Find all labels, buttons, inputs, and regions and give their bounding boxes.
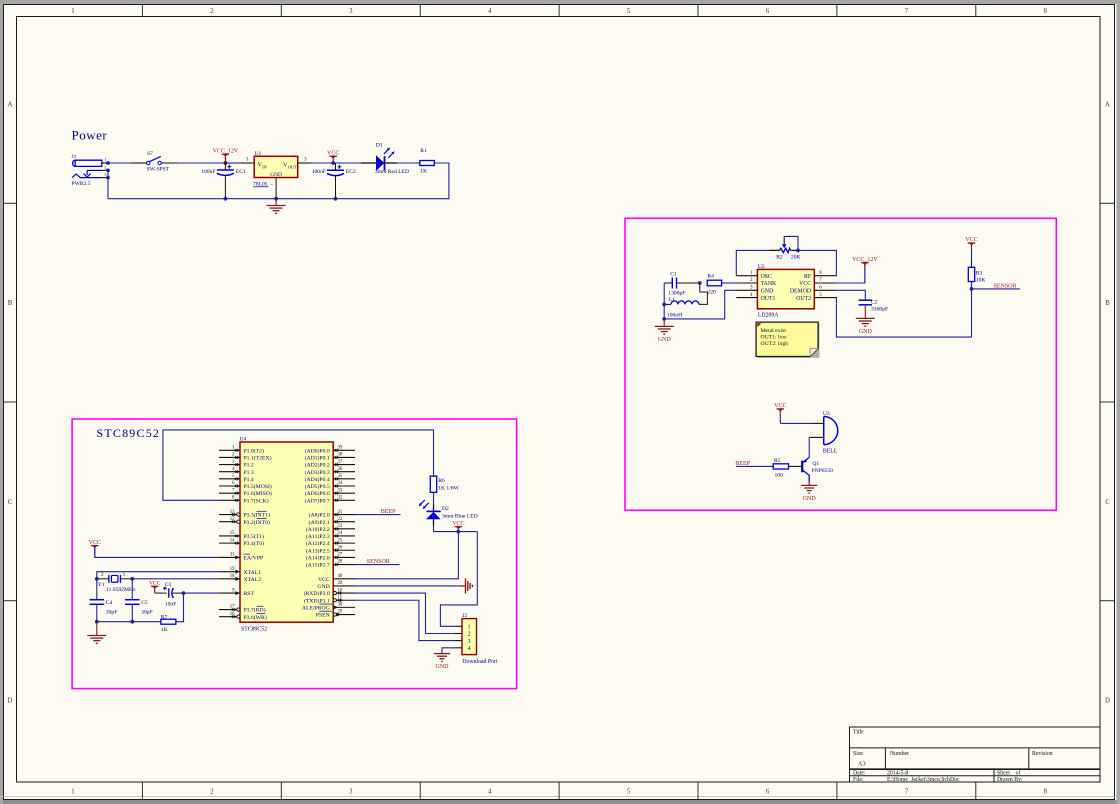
svg-text:BELL: BELL [823,448,838,454]
svg-text:SW-SPST: SW-SPST [147,167,170,173]
svg-text:PSEN: PSEN [316,613,330,619]
svg-text:7: 7 [905,789,909,796]
svg-text:C2: C2 [871,299,878,305]
svg-text:VCC: VCC [452,521,464,527]
wire P1.7 to R6 top loop [163,430,434,500]
svg-text:OUT1: low: OUT1: low [761,334,788,340]
svg-text:4: 4 [468,645,471,652]
svg-text:OUT: OUT [288,165,297,170]
pin 19 XTAL1 [219,567,261,576]
connector J1 power jack [72,154,102,187]
U2 pin 2 TANK [736,278,777,287]
svg-text:P3.7(RD): P3.7(RD) [244,607,266,614]
svg-text:Download Port: Download Port [462,659,498,665]
pin 9 RST [219,588,254,597]
svg-text:(A8)P2.0: (A8)P2.0 [309,512,330,519]
svg-text:1: 1 [71,8,74,15]
resistor R7 1K [161,615,176,633]
ground symbol crystal [87,622,106,644]
svg-text:Date:: Date: [853,771,866,777]
wire switch to VCC_12V node [161,162,226,164]
node J1 junctions [106,161,110,179]
svg-text:3: 3 [349,8,353,15]
border row ticks [4,203,1115,601]
pin 11 (TXD)P3.1 [304,595,355,604]
wire VCC node to J2 pin 1 [440,532,477,627]
svg-text:100uF: 100uF [312,169,326,175]
pin 5 P1.4 [219,474,254,483]
svg-text:GND: GND [859,329,873,335]
power symbol VCC_12V [222,153,230,155]
pin 26 (A13)P2.5 [306,545,355,554]
wire VCC to C3 [155,592,167,594]
power symbol VCC at EA/VPP [91,545,99,547]
annotation note Metal exist [756,322,819,358]
capacitor C1 1300pF [664,271,700,296]
svg-text:1K: 1K [161,627,168,633]
pin 29 PSEN [316,610,355,619]
svg-text:C: C [8,499,13,506]
svg-text:P3.6(WR): P3.6(WR) [244,614,267,621]
svg-text:PWR2.5: PWR2.5 [72,181,91,187]
wire crystal ground rail [97,621,161,623]
svg-text:IN: IN [262,165,267,170]
pin 10 (RXD)P3.0 [304,588,355,597]
title block frame [850,727,1101,782]
svg-text:C1: C1 [670,271,677,277]
svg-text:SENSOR: SENSOR [994,284,1017,290]
svg-text:D2: D2 [442,506,449,512]
wire pin 10 RXD to J2 pin 2 [355,593,455,633]
wire C1 L1 left vertical [663,283,665,319]
svg-text:P1.1(T2EX): P1.1(T2EX) [244,455,272,462]
svg-text:5: 5 [627,789,631,796]
pin 13 P3.3(INT1) [219,510,270,519]
border row letters [8,101,1111,704]
svg-text:U1: U1 [255,151,262,157]
svg-text:L1: L1 [669,297,675,303]
wire crystal right to C5 [131,579,133,600]
svg-text:(AD2)P0.2: (AD2)P0.2 [305,462,330,469]
svg-text:Power: Power [72,128,108,143]
detector U2 LD209A body [757,264,814,319]
earth ground symbol at pin 20 [466,578,473,593]
resistor R3 10K [968,267,985,283]
wire VCC node to LED D1 [333,162,376,164]
border column ticks [142,5,975,800]
svg-text:R1: R1 [420,148,427,154]
U2 pin 8 RF [804,271,835,280]
svg-text:(AD1)P0.1: (AD1)P0.1 [305,455,330,462]
node RST junction [182,591,186,595]
svg-text:15: 15 [230,531,235,536]
U2 pin 3 GND [736,286,773,295]
svg-text:Sheet of: Sheet of [997,770,1021,777]
svg-text:A: A [1105,101,1110,108]
svg-text:(A14)P2.6: (A14)P2.6 [306,555,330,562]
resistor R6 1K 1/6W [430,476,459,492]
svg-text:1300pF: 1300pF [668,290,685,296]
svg-text:6: 6 [766,789,770,796]
wire J1 to ground rail [107,170,109,198]
svg-text:(TXD)P3.1: (TXD)P3.1 [304,597,330,604]
svg-text:J2: J2 [462,613,467,619]
svg-text:2: 2 [210,789,214,796]
pin 31 EA/VPP [219,553,263,562]
svg-text:VCC: VCC [327,150,339,156]
svg-text:40: 40 [338,574,343,579]
svg-text:P3.4(T0): P3.4(T0) [244,540,264,547]
svg-text:30: 30 [338,603,343,608]
title block text [853,730,1053,784]
ground symbol at J2 [434,654,450,670]
svg-text:GND: GND [317,584,329,590]
svg-text:8: 8 [1044,789,1048,796]
power symbol VCC at bell [777,408,785,410]
svg-text:BEEP: BEEP [381,509,396,515]
svg-text:VCC: VCC [318,577,330,583]
svg-text:100uH: 100uH [667,312,682,318]
svg-text:R4: R4 [707,274,714,280]
inductor L1 100uH [664,297,699,318]
svg-text:GND: GND [658,337,672,343]
svg-text:EC1: EC1 [236,169,246,175]
svg-text:C3: C3 [165,582,172,588]
wire pin 1 OSC loop to R2 [736,250,778,275]
pin 15 P3.5(T1) [219,531,264,540]
svg-text:2014-5-8: 2014-5-8 [887,771,908,777]
svg-text:S7: S7 [147,151,153,157]
net label BEEP at R5 [735,461,773,467]
svg-text:3mm Blue LED: 3mm Blue LED [442,514,478,520]
svg-text:File:: File: [853,777,864,783]
wire R7 to RST node [176,593,184,622]
svg-text:EC2: EC2 [346,169,356,175]
svg-text:20: 20 [338,581,343,586]
pin 22 (A9)P2.1 [309,517,355,526]
svg-text:U3: U3 [823,411,830,417]
svg-text:30pF: 30pF [141,610,153,616]
svg-text:P1.7(SCK): P1.7(SCK) [244,497,269,504]
svg-text:VCC: VCC [965,237,977,243]
wire U1 GND pin to rail [275,178,277,199]
wire VCC_12V node to U1 pin 1 [225,158,254,163]
svg-text:P1.3: P1.3 [244,470,254,476]
net label BEEP at P2.0 [355,509,401,515]
svg-text:1: 1 [468,624,471,631]
wire VCC to bell top pin [780,422,823,424]
svg-text:P3.3(INT1): P3.3(INT1) [244,512,270,519]
svg-text:100uF: 100uF [201,169,215,175]
svg-text:Revision: Revision [1032,751,1053,757]
capacitor C5 30pF [125,600,153,622]
svg-text:R2: R2 [776,255,783,261]
wire pin 5 OUT2 to SENSOR node [836,289,972,337]
svg-text:R5: R5 [774,458,781,464]
sensor section boundary box [625,218,1056,510]
svg-text:GND: GND [270,172,282,178]
svg-text:R7: R7 [161,615,168,621]
svg-text:VCC_12V: VCC_12V [213,148,239,154]
wire pin 7 VCC to VCC_12V [836,264,865,283]
pin 12 P3.2(INT0) [219,517,270,526]
svg-text:RF: RF [804,274,812,280]
svg-text:7: 7 [905,8,909,15]
node L1 left junction [662,303,666,307]
node C1-R4 junction [698,281,702,285]
svg-text:VCC: VCC [799,281,811,287]
pin 1 P1.0(T2) [219,446,264,455]
power symbol VCC at C3 [151,585,159,587]
pin 27 (A14)P2.6 [306,553,355,562]
svg-text:OUT2: high: OUT2: high [761,341,789,347]
svg-text:20K: 20K [791,255,801,261]
svg-text:3mm Red LED: 3mm Red LED [375,169,409,175]
wire bell bottom pin to Q1 collector [809,437,824,457]
svg-text:(AD7)P0.7: (AD7)P0.7 [305,497,330,504]
svg-text:1: 1 [71,789,74,796]
svg-text:11.0592MHz: 11.0592MHz [106,587,136,593]
wire LED D1 to R1 [385,162,420,164]
wire pin 6 DEMOD to C2 [836,290,866,300]
svg-text:1K 1/6W: 1K 1/6W [438,486,459,492]
svg-text:U2: U2 [758,264,765,270]
svg-text:5: 5 [627,8,631,15]
svg-text:30pF: 30pF [106,610,118,616]
svg-text:3300pF: 3300pF [871,307,888,313]
svg-text:Title: Title [853,730,864,736]
svg-text:GND: GND [761,289,774,295]
wire R3 to SENSOR node [971,282,973,289]
node rail left junction [95,620,99,624]
J1 pin stubs [101,157,108,178]
svg-text:DEMOD: DEMOD [790,289,811,295]
power symbol VCC at R3 [968,242,976,244]
svg-text:OUT2: OUT2 [796,296,811,302]
svg-text:U4: U4 [240,437,247,443]
svg-text:VCC: VCC [89,540,101,546]
svg-text:GND: GND [803,496,817,502]
buzzer U3 BELL [823,411,838,454]
svg-text:B: B [1105,300,1110,307]
node GND junction at C1 [662,317,666,321]
resistor R4 220 [707,274,736,296]
pin 34 (AD5)P0.5 [305,481,355,490]
svg-text:31: 31 [230,553,235,558]
pin 28 (A15)P2.7 [306,560,355,569]
pin 35 (AD4)P0.4 [305,474,355,483]
pin 24 (A11)P2.3 [306,531,355,540]
svg-text:SENSOR: SENSOR [367,559,390,565]
svg-text:P1.2: P1.2 [244,463,254,469]
capacitor C2 3300pF [859,299,889,312]
pin 17 P3.7(RD) [219,605,266,614]
U2 pin 5 OUT2 [796,293,835,302]
ground symbol at C1 [655,319,674,343]
U2 pin 7 VCC [799,278,835,287]
svg-text:STC89C52: STC89C52 [241,627,267,633]
svg-text:A3: A3 [858,761,866,768]
pin 8 P1.7(SCK) [219,495,269,504]
pin 39 (AD0)P0.0 [305,446,355,455]
svg-text:GND: GND [436,664,450,670]
svg-text:3: 3 [104,172,106,177]
LED D1 3mm Red LED [375,143,409,176]
ground symbol at Q1 [801,482,817,501]
ground symbol at C2 [856,305,875,335]
svg-text:P1.5(MOSI): P1.5(MOSI) [244,483,272,490]
wire LED D2 to VCC node [433,519,435,526]
LED D2 3mm Blue LED [419,500,478,520]
wire pin 19 XTAL1 to crystal [97,572,219,579]
pin 7 P1.6(MISO) [219,488,272,497]
svg-text:10uF: 10uF [165,601,177,607]
capacitor C3 10uF [163,582,176,607]
svg-text:D1: D1 [376,143,383,149]
node VCC_12V junction [224,161,228,165]
svg-text:(A13)P2.5: (A13)P2.5 [306,547,330,554]
svg-text:C5: C5 [141,600,148,606]
svg-text:(AD4)P0.4: (AD4)P0.4 [305,476,330,483]
U2 pin 1 OSC [736,271,772,280]
wire pin 18 XTAL2 to crystal [132,578,219,580]
power symbol VCC at D2 [455,526,463,528]
pin 40 VCC [318,574,355,583]
svg-text:8: 8 [1044,8,1048,15]
svg-text:~: ~ [271,182,274,188]
svg-text:B: B [8,300,13,307]
pin 38 (AD1)P0.1 [305,453,355,462]
ground symbol under U1 [267,199,286,214]
power symbol VCC [329,155,337,157]
wire R6 to LED D2 [433,492,435,504]
svg-text:(AD5)P0.5: (AD5)P0.5 [305,483,330,490]
svg-text:(AD6)P0.6: (AD6)P0.6 [305,490,330,497]
wire crystal left to C4 [96,579,98,600]
node crystal right junction [130,577,134,581]
net label SENSOR [972,284,1021,290]
svg-text:C: C [1105,499,1110,506]
svg-text:Y1: Y1 [98,582,105,588]
svg-text:BEEP: BEEP [735,461,750,467]
svg-text:P3.2(INT0): P3.2(INT0) [244,519,270,526]
svg-text:2: 2 [104,165,106,170]
node VCC junction at D2 [457,530,461,534]
pin 4 P1.3 [219,467,254,476]
svg-text:1: 1 [104,157,106,162]
wire U1 pin 3 to VCC node [298,158,334,163]
svg-text:R6: R6 [438,478,445,484]
svg-text:OUT1: OUT1 [761,296,776,302]
svg-text:PNP8550: PNP8550 [812,468,834,474]
power symbol VCC_12V at U2 [861,262,869,264]
svg-text:LD209A: LD209A [758,312,779,318]
svg-text:XTAL2: XTAL2 [244,577,262,583]
svg-text:(RXD)P3.0: (RXD)P3.0 [304,590,330,597]
svg-text:6: 6 [766,8,770,15]
capacitor C4 30pF [90,600,118,622]
node crystal left junction [95,577,99,581]
pin 36 (AD3)P0.3 [305,467,355,476]
svg-text:P1.0(T2): P1.0(T2) [244,447,264,454]
svg-text:2: 2 [468,631,471,638]
svg-text:E:\Home_Jacket\3mcu.SchDoc: E:\Home_Jacket\3mcu.SchDoc [887,777,960,783]
svg-text:C4: C4 [106,600,113,606]
pin 6 P1.5(MOSI) [219,481,272,490]
wire junction to L1 jog [699,283,707,304]
svg-text:VCC: VCC [149,581,161,587]
svg-text:(A15)P2.7: (A15)P2.7 [306,562,330,569]
wire R1 to ground rail loop [108,163,449,199]
resistor R5 100 [773,458,788,478]
node rail C5 junction [130,620,134,624]
svg-text:(A10)P2.2: (A10)P2.2 [306,526,330,533]
svg-text:VCC: VCC [774,403,786,409]
svg-text:OSC: OSC [761,274,772,280]
pin 18 XTAL2 [219,574,261,583]
pin 16 P3.6(WR) [219,612,267,621]
MCU section boundary box [72,419,516,689]
svg-text:EA/VPP: EA/VPP [244,556,264,562]
pin 33 (AD6)P0.6 [305,488,355,497]
regulator U1 78L05 [253,151,298,188]
wire J1 to switch S7 [108,162,147,164]
capacitor EC1 100uF [201,163,246,199]
wire pin 11 TXD to J2 pin 3 [355,600,455,640]
wire VCC to pin 31 EA/VPP [95,546,219,557]
svg-text:Q1: Q1 [812,461,819,467]
svg-text:19: 19 [230,567,235,572]
node VCC junction [331,161,335,165]
pin 20 GND [317,581,355,590]
svg-text:Drawn By:: Drawn By: [997,777,1023,783]
svg-text:A: A [8,101,13,108]
svg-text:R3: R3 [976,270,983,276]
microcontroller U4 STC89C52 body [240,437,334,633]
potentiometer R2 20K [769,236,800,260]
svg-text:(AD0)P0.0: (AD0)P0.0 [305,447,330,454]
svg-text:P3.5(T1): P3.5(T1) [244,533,264,540]
U2 pin 6 DEMOD [790,286,836,295]
wire GND run to pin 3 [664,290,736,319]
svg-text:220: 220 [707,290,716,296]
svg-text:2: 2 [210,8,214,15]
svg-text:1K: 1K [420,169,427,175]
switch S7 SW-SPST [147,151,170,173]
svg-text:P1.6(MISO): P1.6(MISO) [244,490,272,497]
pin 37 (AD2)P0.2 [305,460,355,469]
svg-text:Size: Size [853,751,863,757]
pin 3 P1.2 [219,460,254,469]
svg-text:3: 3 [468,638,471,645]
svg-text:4: 4 [488,789,492,796]
pin 23 (A10)P2.2 [306,524,355,533]
svg-text:Number: Number [890,751,909,757]
resistor R1 1K [420,148,435,175]
pin 32 (AD7)P0.7 [305,495,355,504]
pin 25 (A12)P2.4 [306,538,355,547]
crystal Y1 11.0592MHz [97,573,136,593]
svg-text:RST: RST [244,591,255,597]
connector J2 Download Port [455,613,498,665]
svg-text:VCC_12V: VCC_12V [852,257,878,263]
pin 2 P1.1(T2EX) [219,453,272,462]
wire VCC node to pin 40 [355,532,458,579]
net label SENSOR at P2.7 [355,559,400,565]
wire J2 pin 4 to ground [442,648,455,654]
svg-text:(A11)P2.3: (A11)P2.3 [306,533,330,540]
pin 14 P3.4(T0) [219,538,264,547]
